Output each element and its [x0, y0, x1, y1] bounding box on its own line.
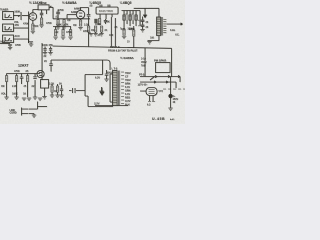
svg-text:117V 60~: 117V 60~ [138, 84, 149, 87]
svg-text:117V: 117V [94, 103, 100, 106]
svg-text:1K: 1K [23, 93, 26, 96]
svg-text:47K: 47K [64, 24, 69, 27]
svg-text:450V: 450V [107, 72, 113, 75]
svg-text:PM SPKR: PM SPKR [154, 59, 166, 63]
svg-text:470K: 470K [66, 31, 72, 34]
svg-text:470K: 470K [23, 23, 29, 26]
svg-text:¼ 6BQ5: ¼ 6BQ5 [120, 1, 132, 5]
svg-text:FROM 6.3V TAP: FROM 6.3V TAP [108, 50, 126, 53]
svg-text:220K: 220K [83, 30, 89, 33]
svg-text:4•61: 4•61 [170, 118, 175, 121]
svg-text:5Y3: 5Y3 [159, 90, 164, 93]
svg-text:470K: 470K [15, 44, 21, 47]
svg-text:BASS TREB: BASS TREB [99, 10, 113, 13]
svg-text:6AW8: 6AW8 [71, 11, 78, 14]
svg-text:TUNER: TUNER [0, 9, 9, 12]
svg-text:47K: 47K [15, 24, 20, 27]
svg-text:CORD: CORD [10, 112, 17, 115]
svg-text:47K: 47K [109, 34, 114, 37]
svg-text:TAP: TAP [141, 65, 146, 68]
svg-text:1M: 1M [73, 24, 76, 27]
svg-text:AUX: AUX [0, 41, 5, 44]
svg-text:L T-S: L T-S [112, 68, 118, 71]
svg-text:2.2K: 2.2K [84, 24, 89, 27]
svg-text:1500: 1500 [33, 25, 39, 28]
svg-text:VOL: VOL [1, 93, 6, 96]
svg-text:AUX: AUX [15, 35, 20, 38]
svg-text:330K: 330K [129, 28, 135, 31]
svg-text:1M: 1M [1, 85, 4, 88]
svg-text:U-45B: U-45B [152, 117, 165, 121]
svg-text:470K: 470K [46, 22, 52, 25]
svg-text:12AX7: 12AX7 [18, 64, 28, 68]
svg-text:V.C.: V.C. [175, 34, 180, 37]
svg-text:2.2K: 2.2K [49, 83, 54, 86]
svg-text:1K: 1K [54, 90, 57, 93]
svg-text:100K 47K: 100K 47K [42, 44, 53, 47]
svg-text:470K: 470K [56, 24, 62, 27]
svg-text:100K: 100K [12, 93, 18, 96]
svg-text:½ 6AW8A: ½ 6AW8A [120, 56, 135, 60]
svg-text:½ 6AW8A: ½ 6AW8A [62, 1, 77, 5]
svg-text:100K: 100K [95, 23, 101, 26]
svg-text:500K: 500K [15, 11, 21, 14]
svg-text:100: 100 [121, 28, 126, 31]
svg-text:BLK: BLK [125, 104, 130, 107]
svg-text:TO PILOT: TO PILOT [127, 50, 139, 53]
svg-text:1M: 1M [91, 29, 94, 32]
svg-text:470K: 470K [58, 9, 64, 12]
svg-text:TONE: TONE [40, 2, 47, 5]
svg-text:2.2K: 2.2K [12, 85, 17, 88]
svg-text:1M: 1M [67, 19, 70, 22]
svg-text:6.3V: 6.3V [95, 77, 100, 80]
svg-text:3.2Ω: 3.2Ω [170, 29, 175, 32]
svg-text:270K: 270K [104, 21, 110, 24]
svg-text:100: 100 [150, 37, 155, 40]
svg-text:6.3V A.C.: 6.3V A.C. [110, 46, 121, 49]
svg-text:PT-S: PT-S [139, 74, 145, 77]
svg-text:470K: 470K [14, 70, 20, 73]
